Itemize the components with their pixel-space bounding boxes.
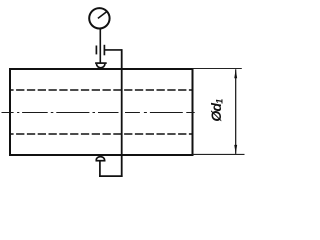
anvil dome bbox=[96, 157, 104, 161]
arrowhead up bbox=[234, 69, 237, 78]
anvil bar bbox=[96, 160, 106, 162]
frame column vertical bbox=[121, 49, 123, 177]
centerline axis bbox=[2, 112, 195, 114]
hidden bore line lower bbox=[10, 133, 192, 135]
dimension line d1 bbox=[235, 69, 237, 154]
frame arm horizontal bbox=[104, 49, 121, 51]
contact foot bar bbox=[95, 62, 107, 64]
dial indicator stem bbox=[99, 29, 101, 63]
extension line bottom bbox=[193, 153, 245, 155]
clamp jaw left bbox=[95, 46, 97, 55]
hidden bore line upper bbox=[10, 89, 192, 91]
frame base horizontal bbox=[99, 175, 123, 177]
dial indicator needle bbox=[98, 11, 107, 18]
arrowhead down bbox=[234, 145, 237, 154]
dial indicator U1 face bbox=[89, 8, 109, 28]
anvil stem bbox=[99, 161, 101, 176]
contact foot cup bbox=[97, 64, 105, 68]
clamp jaw right bbox=[103, 45, 105, 56]
workpiece cylinder outline bbox=[10, 69, 193, 155]
extension line top bbox=[193, 68, 242, 70]
svg-text:Ød1: Ød1 bbox=[208, 99, 225, 122]
